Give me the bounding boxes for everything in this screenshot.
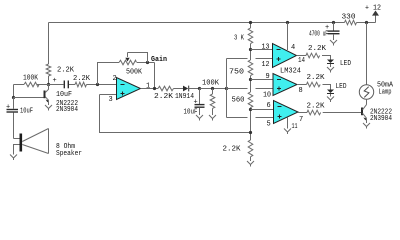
svg-text:11: 11 [292,123,298,131]
wire 2.2K to collector node [48,76,50,85]
svg-text:10uF: 10uF [56,91,72,99]
wire tap3 to pin6 [251,109,274,111]
wire to 100K bleed [200,88,227,90]
svg-text:4: 4 [291,44,295,52]
wire rail right of 330 [357,22,376,24]
svg-text:+: + [194,99,198,107]
pot wiper [128,53,148,63]
svg-text:2.2K: 2.2K [308,45,327,53]
svg-text:2.2K: 2.2K [73,75,91,83]
ground Q1 emitter [45,105,52,109]
svg-text:Speaker: Speaker [56,150,82,158]
svg-text:3 K: 3 K [234,35,245,43]
svg-text:+ 12: + 12 [365,5,381,13]
speaker SP1 [14,138,20,140]
resistor 100K feedback bias [14,84,25,86]
wire pin3 bias to divider bottom [100,95,251,133]
lamp 50mA [366,23,368,85]
potentiometer 500K [119,60,137,65]
resistor 3K [248,28,253,44]
ground LED2 [327,97,334,101]
resistor 2.2K collector load (vertical) [46,64,51,76]
capacitor 10uF input (from speaker) [13,98,15,109]
wire to pin12 (crosses chain) [227,58,274,60]
wire output op-amp [141,88,159,90]
wire to pin5 (crosses chain) [227,117,274,119]
node collector junction [47,83,50,86]
LED D1 [327,60,334,64]
op-amp U1C comparator 2 [273,74,297,96]
capacitor 10uF series coupling [49,84,64,86]
svg-text:2.2K: 2.2K [223,146,242,154]
node rail taps [249,21,252,24]
resistor 2.2K LED2 [307,82,321,87]
resistor 560 [248,92,253,108]
svg-text:7: 7 [299,116,303,124]
divider chain [250,23,252,29]
ground speaker [10,155,17,159]
ground LED1 [327,67,334,71]
svg-text:330: 330 [342,14,356,22]
ground pin11 [284,129,291,133]
svg-text:560: 560 [232,97,245,105]
wire signal vertical [226,59,228,118]
wire feedback down to output [154,63,156,89]
svg-text:5: 5 [267,121,271,129]
LED D2 [327,90,334,94]
svg-text:8: 8 [299,87,303,95]
wire pin4 V+ [287,23,289,51]
diode 1N914 [183,86,188,92]
op-amp U1D comparator 1 [273,44,297,68]
resistor 2.2K lamp driver [307,110,321,115]
node peak detector [198,87,201,90]
wire base branch [13,85,15,98]
wire pin11 to ground [287,117,289,128]
svg-text:10uF: 10uF [184,109,198,117]
node signal branch [225,87,228,90]
svg-text:2.2K: 2.2K [154,93,174,101]
svg-text:LED: LED [340,60,351,68]
svg-text:LED: LED [336,83,347,91]
svg-text:13: 13 [262,44,270,52]
svg-text:750: 750 [229,69,244,77]
wire to pin10 (crosses chain) [227,88,274,90]
capacitor 10uF peak [199,89,201,105]
svg-text:1N914: 1N914 [175,93,194,101]
resistor 750 [248,60,253,76]
svg-text:100K: 100K [23,75,39,83]
wire feedback up [98,63,120,85]
svg-text:LM324: LM324 [280,68,301,76]
svg-text:10: 10 [263,92,271,100]
resistor 2.2K output [158,86,174,91]
+12 supply arrow [375,15,377,23]
node feedback tap [96,83,99,86]
svg-text:+: + [325,24,329,32]
svg-text:Gain: Gain [151,56,167,64]
svg-text:12: 12 [262,61,270,69]
resistor 2.2K LED1 [306,53,320,58]
ground 4700uF [330,40,337,44]
ground Q2 emitter [363,123,370,127]
wire top rail [49,22,345,24]
svg-text:10uF: 10uF [20,108,33,116]
ground 100K bleed [209,115,216,119]
wire left column from rail [48,23,50,65]
wire tap1 to pin13 [251,49,274,51]
resistor 330 [345,20,357,25]
svg-text:2.2K: 2.2K [57,67,75,75]
svg-text:2.2K: 2.2K [307,103,326,111]
op-amp U1A pins 2,3 out 1 [100,94,117,96]
svg-text:2.2K: 2.2K [307,74,326,82]
svg-text:Lamp: Lamp [379,89,392,97]
resistor 100K bleed (vertical) [212,89,214,95]
resistor 2.2K series [75,82,87,87]
svg-text:14: 14 [298,57,305,65]
svg-text:500K: 500K [126,68,143,76]
svg-text:+: + [53,77,57,85]
svg-text:2: 2 [113,75,117,83]
svg-text:2N3904: 2N3904 [370,115,392,123]
svg-text:2N3904: 2N3904 [56,106,78,114]
ground peak cap [196,115,203,119]
wire tap2 to pin9 [251,79,274,81]
transistor Q1 2N2222 [44,91,46,99]
ground divider [247,161,254,165]
svg-text:3: 3 [109,96,113,104]
capacitor 4700uF [333,23,335,31]
resistor 2.2K divider bottom [248,140,253,157]
svg-text:6: 6 [267,102,271,110]
svg-text:+: + [6,103,10,111]
op-amp U1B comparator 3 [274,101,299,124]
transistor Q2 2N2222 lamp driver [361,108,363,116]
svg-text:1: 1 [146,83,150,91]
svg-text:100K: 100K [202,80,220,88]
svg-text:9: 9 [266,73,270,81]
